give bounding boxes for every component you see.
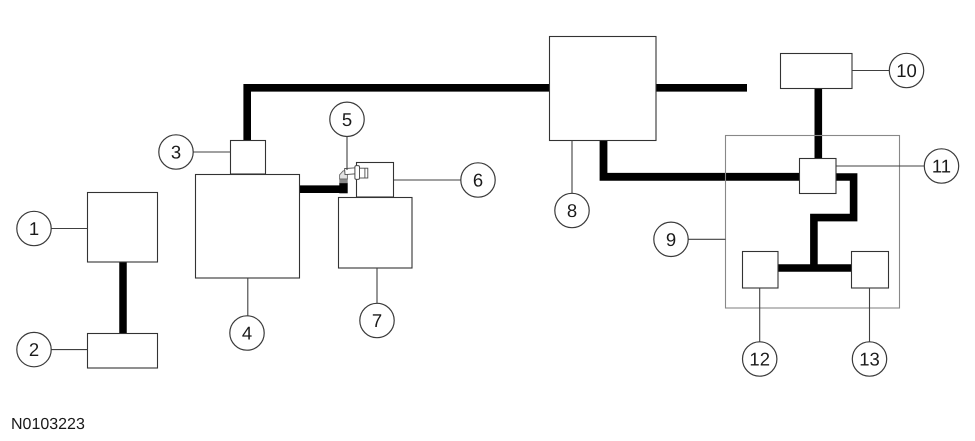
- leader line to callout 13: [869, 288, 871, 342]
- callout circle 8: [555, 193, 589, 227]
- svg-text:5: 5: [342, 109, 352, 130]
- box 1: [88, 193, 158, 263]
- wire: thick hose from box 3 up and right to box 8: [247, 88, 552, 142]
- box 10: [781, 54, 853, 89]
- leader line to callout 11: [836, 165, 924, 167]
- box 13: [852, 252, 889, 289]
- leader line to callout 5: [346, 137, 348, 171]
- svg-text:6: 6: [473, 170, 483, 191]
- wire: thick hose from box 1 to box 2: [119, 260, 127, 336]
- box 8: [550, 37, 657, 141]
- callout circle 1: [17, 211, 51, 245]
- leader line to callout 7: [376, 268, 378, 303]
- leader line to callout 2: [51, 349, 87, 351]
- box 3: [231, 141, 266, 175]
- box 7: [339, 198, 413, 269]
- box 12: [743, 252, 779, 289]
- callout circle 7: [360, 303, 394, 337]
- svg-text:9: 9: [666, 229, 676, 250]
- valve 5 elbow fitting: [339, 166, 368, 194]
- svg-text:3: 3: [171, 142, 181, 163]
- leader line to callout 6: [394, 179, 461, 181]
- wire: thick hose between box 12 and box 13: [776, 264, 854, 272]
- callout circle 5: [330, 102, 364, 136]
- svg-text:10: 10: [896, 60, 917, 81]
- leader line to callout 4: [247, 278, 249, 316]
- leader line to callout 12: [759, 288, 761, 342]
- wire: thick hose from box 10 down to box 11: [814, 86, 822, 160]
- callout circle 9: [654, 222, 688, 256]
- svg-text:12: 12: [749, 349, 770, 370]
- callout circle 10: [889, 53, 923, 87]
- callout circle 2: [17, 332, 51, 366]
- svg-text:7: 7: [372, 310, 382, 331]
- callout circle 6: [461, 163, 495, 197]
- svg-text:4: 4: [242, 323, 252, 344]
- callout circle 3: [159, 135, 193, 169]
- callout circle 13: [852, 342, 886, 376]
- leader line to callout 9: [688, 238, 725, 240]
- callout circle 12: [743, 342, 777, 376]
- callout circle 11: [924, 149, 958, 183]
- box 9 outline (module boundary): [726, 136, 900, 309]
- wire: thick hose from box 8 right edge to open end: [654, 84, 747, 92]
- wire: thick hose zigzag from box 11 down-left: [814, 177, 854, 266]
- leader line to callout 1: [51, 228, 87, 230]
- callout circle 4: [230, 316, 264, 350]
- svg-text:13: 13: [859, 349, 880, 370]
- svg-text:11: 11: [932, 156, 951, 177]
- svg-text:8: 8: [567, 200, 577, 221]
- leader line to callout 3: [193, 151, 230, 153]
- wire: thick hose from box 8 bottom down and right to box 11: [604, 139, 802, 177]
- box 6: [357, 163, 394, 198]
- box 4: [196, 175, 300, 279]
- box 11: [800, 159, 837, 194]
- leader line to callout 8: [571, 140, 573, 193]
- svg-text:2: 2: [29, 339, 39, 360]
- leader line to callout 10: [852, 70, 889, 72]
- svg-text:1: 1: [29, 218, 39, 239]
- box 2: [88, 334, 158, 369]
- wire: thick hose from box 4 right edge to valve 5: [298, 185, 344, 193]
- svg-text:N0103223: N0103223: [11, 416, 85, 433]
